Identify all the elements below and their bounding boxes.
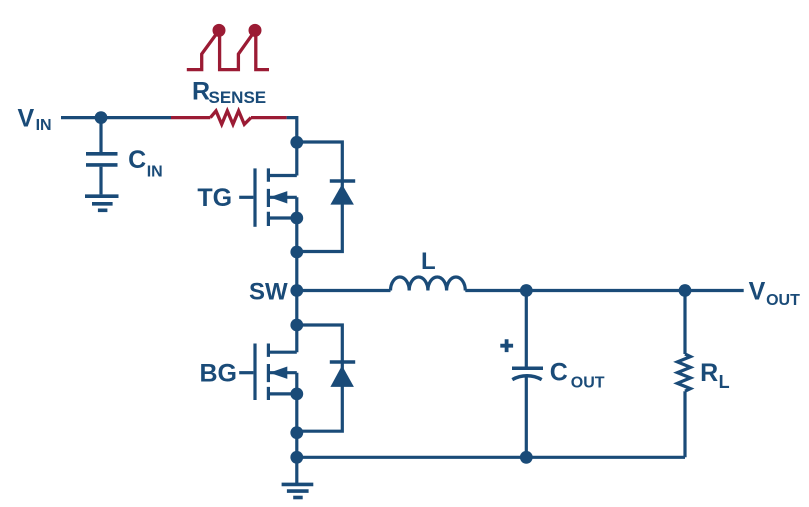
svg-text:SW: SW <box>249 279 288 306</box>
svg-text:IN: IN <box>147 164 163 181</box>
svg-text:C: C <box>550 359 568 387</box>
svg-text:C: C <box>128 146 146 174</box>
svg-text:OUT: OUT <box>766 292 800 309</box>
svg-text:OUT: OUT <box>571 375 605 392</box>
svg-text:L: L <box>421 248 436 275</box>
svg-text:L: L <box>719 372 730 392</box>
svg-text:R: R <box>700 359 718 387</box>
svg-text:V: V <box>749 277 766 305</box>
svg-text:SENSE: SENSE <box>209 88 267 107</box>
svg-text:TG: TG <box>197 184 232 212</box>
svg-text:R: R <box>192 77 210 105</box>
svg-text:V: V <box>18 105 35 133</box>
svg-text:BG: BG <box>200 360 238 388</box>
svg-text:IN: IN <box>36 117 52 134</box>
